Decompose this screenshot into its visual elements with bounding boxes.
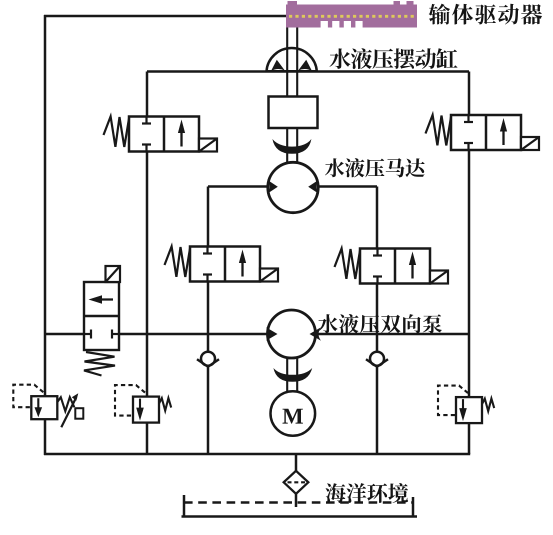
label: bidirectional pump: [318, 314, 442, 333]
wire: motor right riser: [376, 187, 379, 251]
wire: top-right valve top riser: [468, 72, 471, 117]
label: actuator driver: [429, 4, 542, 25]
wire: mid-right valve bottom line: [376, 282, 379, 454]
wire: filter drop line: [295, 454, 298, 507]
label: marine environment: [326, 483, 409, 503]
wire: motor left port line: [208, 185, 272, 188]
hydraulic motor circle: [268, 162, 318, 212]
filter: [284, 471, 309, 494]
check valve left: [197, 352, 219, 367]
valve V3 (mid-left, motor left): [165, 247, 279, 282]
valve V2 (top-right, swing cyl right): [426, 115, 540, 150]
valve V1 (top-left, swing cyl left): [104, 117, 218, 152]
wire: pump right line: [312, 333, 470, 336]
wire: left frame line: [44, 15, 47, 455]
dome arrows: [271, 60, 312, 71]
valve V4 (mid-right, motor right): [335, 249, 449, 284]
wire: swing line (dome bottom): [147, 70, 469, 73]
wire: top-left valve top port: [146, 72, 149, 118]
wire: top-right valve bottom line: [468, 149, 471, 454]
motor inner arrows: [267, 180, 319, 194]
actuator drive bar (purple rack): [286, 1, 417, 28]
swing arrow (pump shaft): [273, 368, 312, 382]
relief valve right: [438, 386, 494, 424]
label: swing cylinder: [329, 48, 457, 69]
bypass valve V5 (vertical, pump shunt): [84, 266, 120, 376]
electric motor M circle: [271, 391, 316, 436]
shaft: pump to electric motor: [287, 357, 297, 393]
swing cylinder dome: [267, 48, 317, 71]
wire: top-left valve return line: [146, 150, 149, 454]
wire: mid-left valve bottom line: [207, 280, 210, 454]
wire: motor right port line: [312, 185, 377, 188]
wire: motor left riser: [207, 187, 210, 248]
label: water hydraulic motor: [325, 158, 425, 177]
shaft: bar to dome: [287, 28, 297, 97]
relief valve mid: [115, 385, 171, 423]
bidirectional pump circle: [268, 310, 316, 358]
sea water tank: [182, 495, 418, 517]
wire: top line to actuator: [44, 15, 287, 18]
gear box: [269, 97, 318, 129]
shaft: gear box to motor: [287, 128, 297, 164]
wire: pump left line: [45, 333, 84, 336]
pump inner arrows: [266, 327, 321, 341]
swing arrow (motor shaft): [272, 139, 311, 154]
check valve right: [366, 352, 388, 367]
wire: bottom tank rail: [44, 453, 470, 456]
relief valve left (adjustable): [13, 385, 83, 428]
